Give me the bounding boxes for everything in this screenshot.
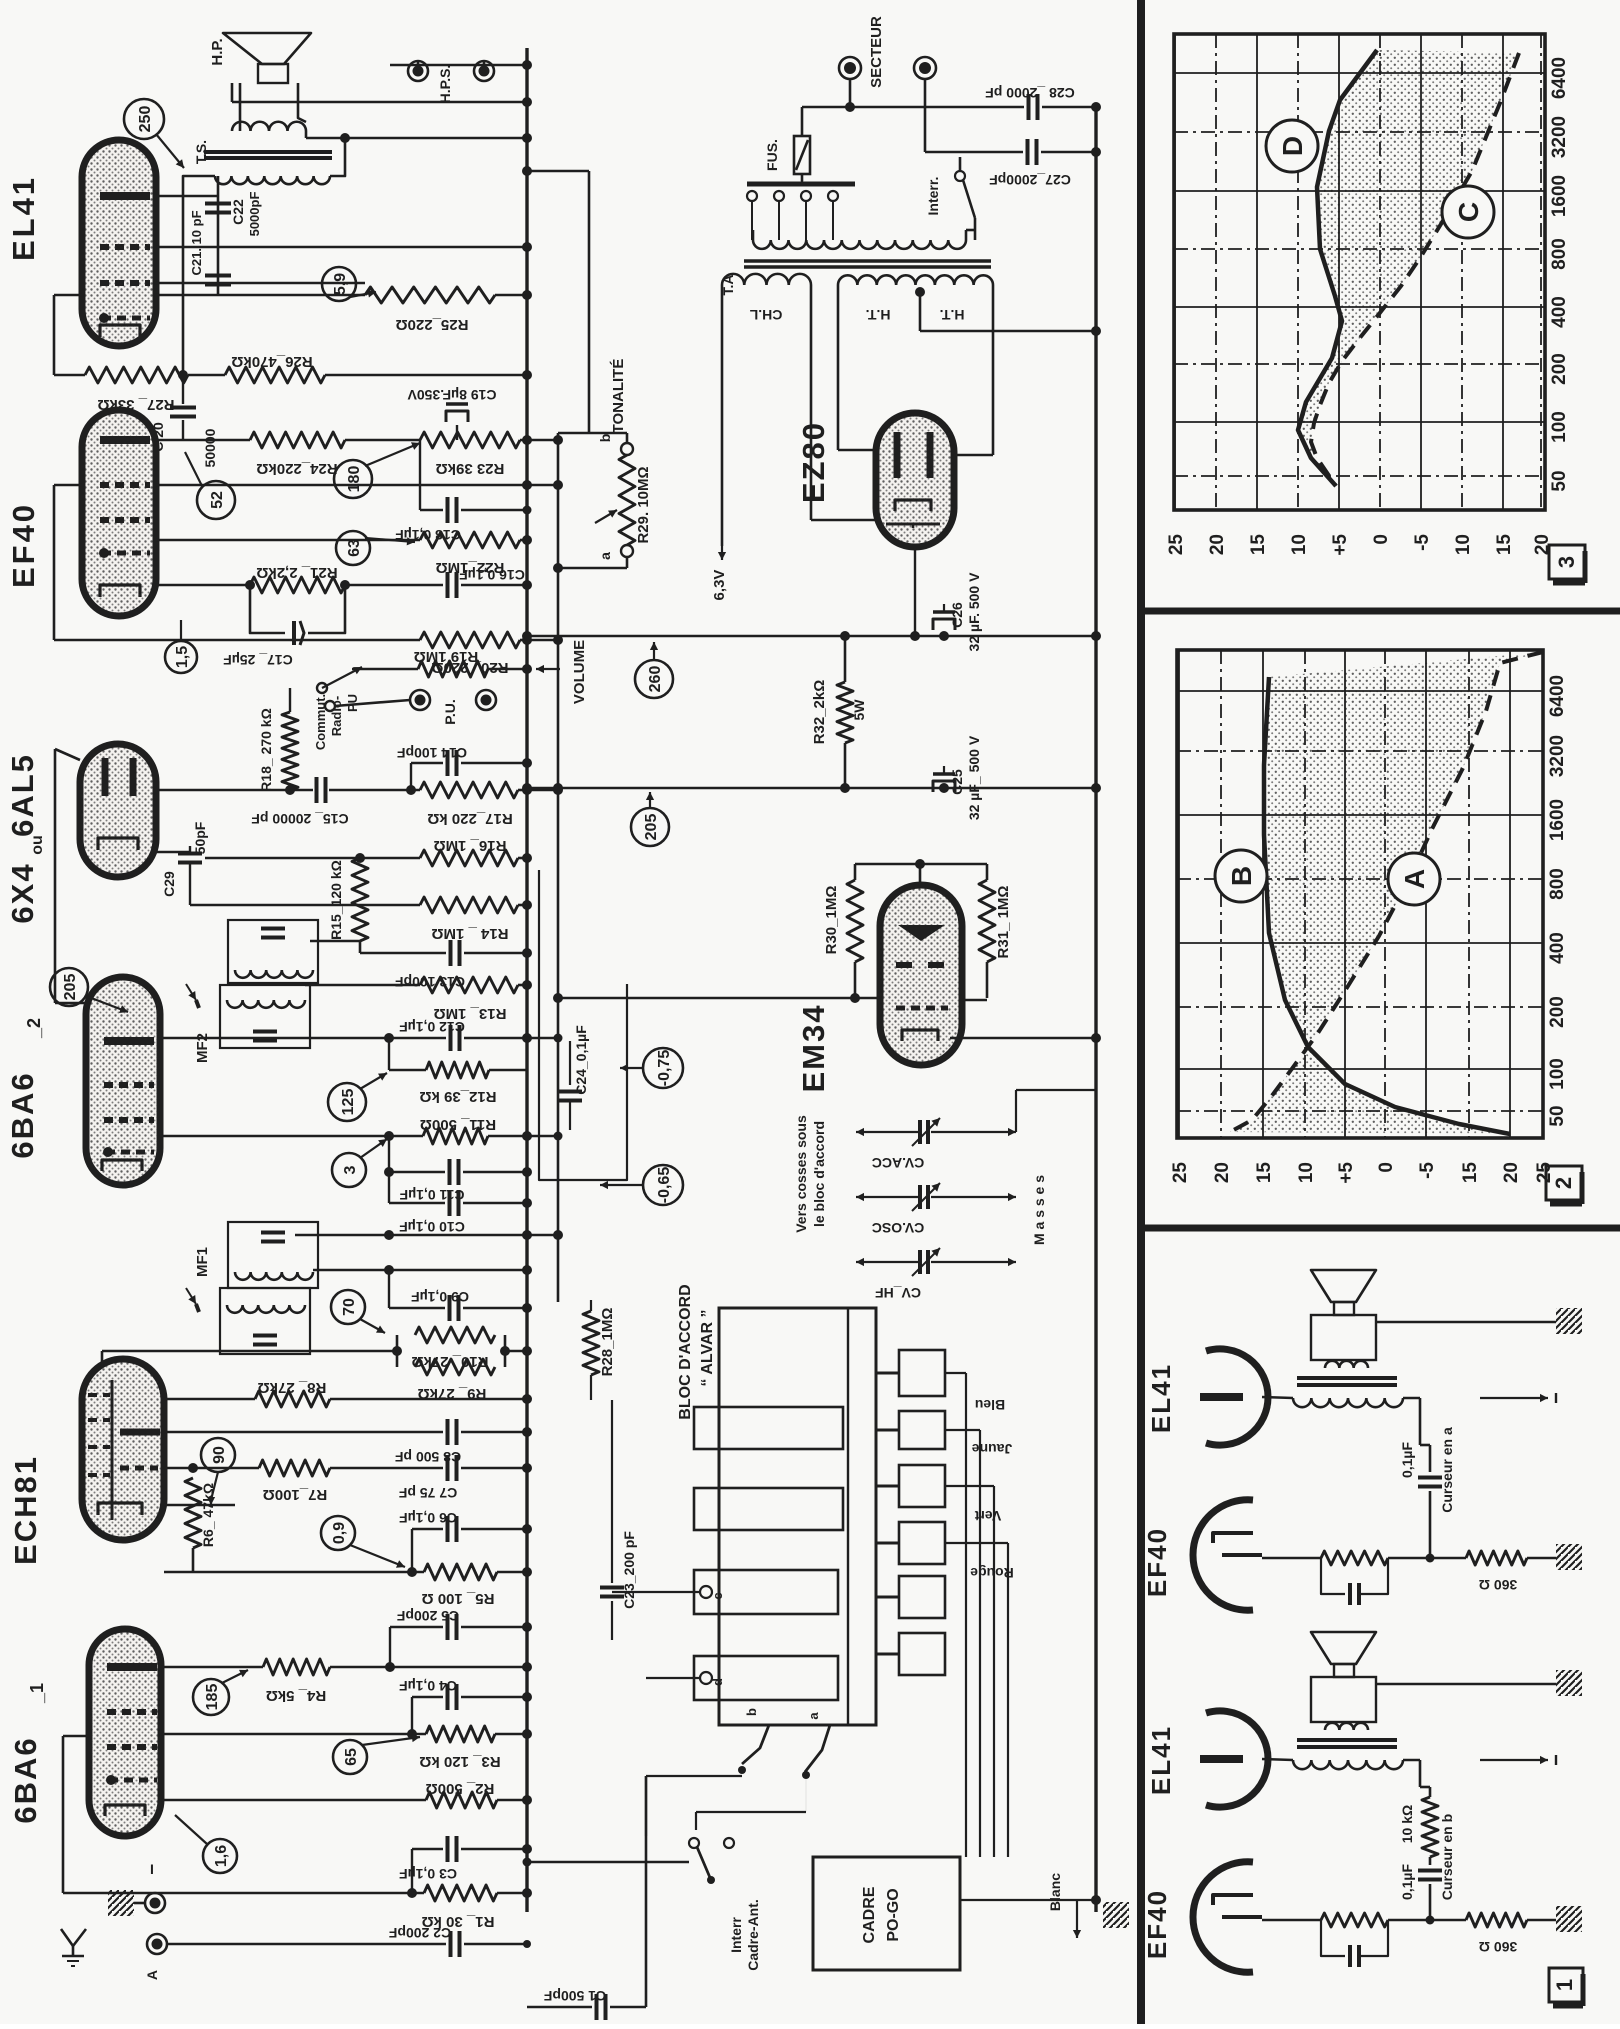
curve A dashed xyxy=(1230,652,1543,1132)
label C29 value xyxy=(192,821,208,854)
wire R17 to bus xyxy=(518,789,527,792)
wire HPS rail xyxy=(390,64,527,67)
svg-text:C21. 10 pF: C21. 10 pF xyxy=(189,210,204,275)
tube ECH81 xyxy=(82,1359,164,1540)
svg-text:1600: 1600 xyxy=(1549,175,1570,217)
transformer TA secondary CHL xyxy=(722,274,811,285)
EL41 anode bar xyxy=(100,192,150,200)
tuning block bar2 xyxy=(694,1488,843,1530)
label H.T. left xyxy=(866,307,891,323)
wire R2 to bus xyxy=(497,1799,527,1802)
resistor R19 xyxy=(418,661,488,677)
wire cadre lead 2 xyxy=(945,1430,980,1857)
wire middle b xyxy=(1388,1919,1466,1922)
svg-text:TONALITÉ: TONALITÉ xyxy=(610,359,627,434)
label Rouge xyxy=(970,1565,1014,1581)
label EZ80 xyxy=(796,421,831,503)
label T.S. xyxy=(193,140,209,164)
svg-text:10 kΩ: 10 kΩ xyxy=(1399,1805,1415,1843)
tuning block bar3 xyxy=(694,1570,838,1614)
EM34 bars xyxy=(896,962,944,968)
svg-text:R17_220 kΩ: R17_220 kΩ xyxy=(427,810,512,827)
wire EL41 anode row xyxy=(156,195,218,198)
junction xyxy=(553,563,563,573)
wire curseur branch a xyxy=(1420,1398,1430,1472)
wire speaker ground b xyxy=(1376,1683,1556,1686)
junction xyxy=(845,102,855,112)
junction xyxy=(385,1622,532,1672)
resistor R17 xyxy=(420,782,518,798)
svg-text:C4 0,1µF: C4 0,1µF xyxy=(399,1678,457,1694)
callout 180 xyxy=(334,442,420,498)
svg-text:63: 63 xyxy=(346,539,363,557)
capacitor C4 xyxy=(412,1684,527,1734)
wire switch a row xyxy=(696,1771,810,1830)
tuning block bar1 xyxy=(694,1407,843,1449)
label 10k b xyxy=(1399,1805,1415,1843)
label C18 value xyxy=(395,527,461,543)
wire R5 to bus xyxy=(497,1571,527,1574)
capacitor C18 xyxy=(420,440,532,523)
svg-text:Bleu: Bleu xyxy=(975,1397,1005,1413)
wire right-hand vertical bus xyxy=(1094,107,1097,1912)
label C22 xyxy=(230,199,246,225)
junction xyxy=(522,1795,532,1805)
svg-text:R19 1MΩ: R19 1MΩ xyxy=(414,648,479,665)
svg-text:360 Ω: 360 Ω xyxy=(1479,1939,1517,1955)
resistor R5 xyxy=(424,1564,497,1580)
svg-text:M a s s e s: M a s s e s xyxy=(1031,1175,1047,1245)
page tab 1 xyxy=(1549,1968,1583,2006)
wire CHL left lead xyxy=(721,285,724,546)
6BA6_1 grid bars xyxy=(107,1712,157,1747)
label R8 value xyxy=(258,1379,327,1396)
resistor R4 xyxy=(263,1659,330,1675)
label EM34 xyxy=(796,1004,831,1093)
svg-text:20: 20 xyxy=(1501,1162,1522,1183)
label C3 value xyxy=(399,1866,457,1882)
wire R24-R23 xyxy=(345,439,420,442)
wire EL41 grid row xyxy=(156,246,527,249)
wire R19 to bus xyxy=(488,668,527,671)
wire R27-R26 xyxy=(188,374,225,377)
svg-text:FUS.: FUS. xyxy=(764,139,780,171)
capacitor C16 xyxy=(448,572,457,598)
wire ECH81 g row xyxy=(164,1467,259,1470)
label CADRE xyxy=(861,1886,878,1943)
label curve A xyxy=(1388,853,1440,905)
junction xyxy=(939,783,949,793)
svg-text:C24_0,1µF: C24_0,1µF xyxy=(573,1025,589,1095)
capacitor C24 xyxy=(558,1092,582,1131)
wire 6BA6_2 cathode row xyxy=(160,1135,423,1138)
label R20 value xyxy=(431,659,508,676)
svg-text:b: b xyxy=(597,434,613,443)
terminal secteur right xyxy=(914,57,936,79)
wire C28 row xyxy=(850,106,1024,109)
callout 90 xyxy=(201,1438,235,1505)
wire row858 xyxy=(205,857,420,860)
resistor R6 vertical xyxy=(185,1478,201,1548)
resistor 10k b xyxy=(1422,1797,1438,1857)
label R14 value xyxy=(431,925,508,942)
ground chassis xyxy=(108,1890,134,1916)
arrow 6,3V xyxy=(718,546,726,560)
MF2 lower coil xyxy=(227,1000,305,1008)
svg-text:6BA6: 6BA6 xyxy=(8,1736,43,1823)
wire TS rail y138 xyxy=(306,131,527,138)
output transformer a secondary xyxy=(1325,1361,1368,1368)
capacitor C2 xyxy=(451,1931,460,1957)
svg-text:Interr: Interr xyxy=(728,1917,744,1953)
junction xyxy=(522,948,532,958)
6BA6_2 grid bars xyxy=(104,1085,154,1120)
label R32 value xyxy=(811,680,828,745)
label C20 value 50000 xyxy=(202,428,218,467)
svg-text:800: 800 xyxy=(1547,868,1568,900)
svg-text:65: 65 xyxy=(343,1748,360,1766)
tube EL41 output b xyxy=(1200,1711,1268,1807)
resistor R32 vertical xyxy=(837,636,853,788)
6BA6_2 cathode bracket xyxy=(102,1160,142,1171)
svg-text:C9 0,1µF: C9 0,1µF xyxy=(411,1289,469,1305)
speaker a xyxy=(1311,1270,1376,1360)
junction xyxy=(188,1463,532,1473)
junction xyxy=(522,900,532,910)
wire R14 to bus xyxy=(518,904,527,907)
label R27 value xyxy=(97,396,174,413)
tube EF40 xyxy=(82,410,156,616)
resistor R27 xyxy=(85,367,188,383)
wire R11 to bus xyxy=(488,1132,563,1141)
label MF2 xyxy=(194,1033,211,1063)
svg-text:A: A xyxy=(1399,869,1430,889)
svg-text:b: b xyxy=(744,1708,759,1716)
junction xyxy=(522,242,532,252)
svg-text:25: 25 xyxy=(1170,1162,1191,1184)
wire R26 to bus xyxy=(325,374,527,377)
wire speaker ground a xyxy=(1376,1321,1556,1324)
svg-text:+5: +5 xyxy=(1336,1162,1357,1184)
label C1 value xyxy=(543,1988,606,2004)
svg-text:260: 260 xyxy=(647,666,664,693)
wire HT right lead xyxy=(954,285,993,455)
capacitor C19 electrolytic xyxy=(446,404,468,440)
junction xyxy=(245,580,532,590)
label R19 value xyxy=(414,648,479,665)
label ALVAR xyxy=(699,1309,716,1386)
EM34 grid xyxy=(896,1006,948,1011)
tuning block contact 5 xyxy=(876,1576,945,1618)
capacitor C11 xyxy=(389,1136,527,1185)
label C26 value xyxy=(966,572,982,652)
label H.T. right xyxy=(940,307,965,323)
svg-text:C5 200pF: C5 200pF xyxy=(396,1608,459,1624)
svg-text:2: 2 xyxy=(1551,1177,1576,1189)
label R16 value xyxy=(434,837,507,854)
svg-text:R25_220Ω: R25_220Ω xyxy=(396,316,469,333)
output transformer a core xyxy=(1297,1378,1397,1385)
label R32 5W xyxy=(851,699,867,721)
EL41 grid3 bar xyxy=(99,313,150,323)
junction xyxy=(355,853,532,863)
svg-text:0,1µF: 0,1µF xyxy=(1399,1864,1415,1901)
tube EL41 xyxy=(82,140,156,346)
svg-text:-5: -5 xyxy=(1417,1162,1438,1179)
svg-text:C8 500 pF: C8 500 pF xyxy=(394,1449,461,1465)
svg-text:400: 400 xyxy=(1549,296,1570,328)
wire antenna row xyxy=(167,1943,446,1946)
ground speaker b xyxy=(1556,1670,1582,1696)
svg-text:3: 3 xyxy=(1554,556,1579,568)
capacitor C10 xyxy=(389,1172,527,1216)
wire EM34 left row xyxy=(558,997,880,1000)
junction xyxy=(392,1346,532,1356)
wire bar3 link xyxy=(612,1591,700,1593)
svg-text:P.U.: P.U. xyxy=(442,699,458,724)
label 6X4 ou 6AL5 xyxy=(5,753,46,923)
label H.P.S. xyxy=(437,65,453,104)
svg-text:C1 500pF: C1 500pF xyxy=(543,1988,606,2004)
wire R9R10 right xyxy=(505,1350,527,1353)
wire 6BA6_1 left loop xyxy=(63,1736,89,1893)
wire CV masses xyxy=(1016,1090,1096,1132)
junction xyxy=(522,664,532,674)
wire middle a xyxy=(1388,1557,1466,1560)
resistor R31 vertical xyxy=(979,864,995,998)
svg-text:H.P.: H.P. xyxy=(209,38,226,65)
wire R1 to bus xyxy=(497,1892,527,1895)
wire HPS stubs xyxy=(418,61,484,65)
svg-text:C27_2000pF: C27_2000pF xyxy=(989,172,1071,188)
svg-text:32 µF_ 500 V: 32 µF_ 500 V xyxy=(966,735,982,820)
svg-text:100: 100 xyxy=(1547,1058,1568,1090)
capacitor C9 xyxy=(389,1295,527,1321)
junction xyxy=(407,1844,532,1898)
label R9 value xyxy=(418,1385,487,1402)
svg-text:C25: C25 xyxy=(949,769,965,795)
curve D solid xyxy=(1298,50,1377,486)
junction xyxy=(522,1524,532,1534)
junction xyxy=(522,631,1101,641)
junction xyxy=(522,97,532,107)
junction xyxy=(523,1940,531,1948)
label R3 value xyxy=(419,1753,500,1770)
EF40 grid3 bar xyxy=(99,548,150,558)
wire EF40 g2 row y540 xyxy=(156,539,420,542)
wire speaker rail y102 xyxy=(232,83,527,102)
label C16 value xyxy=(459,567,525,583)
label C24 value xyxy=(573,1025,589,1095)
capacitor C1 xyxy=(597,1994,606,2020)
label 6BA6_1 xyxy=(8,1683,47,1824)
junction xyxy=(522,1729,532,1739)
terminal PU right xyxy=(476,690,496,710)
svg-text:H.T.: H.T. xyxy=(940,307,965,323)
wire row792 xyxy=(156,785,563,795)
label 360 b xyxy=(1479,1939,1517,1955)
label R7 value xyxy=(263,1486,328,1503)
svg-text:200: 200 xyxy=(1549,353,1570,385)
svg-text:205: 205 xyxy=(643,814,660,841)
wire HT left lead xyxy=(838,285,876,450)
panel divider vertical xyxy=(1137,0,1145,2024)
wire cathode return y640 xyxy=(54,639,420,642)
svg-text:C3 0,1µF: C3 0,1µF xyxy=(399,1866,457,1882)
label EL41 a xyxy=(1146,1363,1176,1433)
label EL41 b xyxy=(1146,1725,1176,1795)
callout 63 xyxy=(336,531,415,565)
ground cathode b xyxy=(1556,1906,1582,1932)
ECH81 grid bars xyxy=(88,1395,158,1468)
wire R19 row left xyxy=(352,668,418,671)
wire secondary vertical bus xyxy=(557,433,560,1302)
label CV.ACC xyxy=(872,1155,924,1171)
tube 6BA6_1 xyxy=(89,1629,161,1836)
capacitor 0,1uF b xyxy=(1418,1857,1442,1880)
wire cap to cathode row b xyxy=(1429,1884,1432,1920)
wire TA primary risers xyxy=(753,230,975,240)
label C7 value xyxy=(398,1485,457,1501)
wire 6X4 left loop xyxy=(55,749,85,1003)
svg-text:C11 0,1µF: C11 0,1µF xyxy=(399,1187,464,1203)
wire row640 ext xyxy=(527,635,563,645)
wire EF40 anode row xyxy=(156,439,250,442)
label VOLUME xyxy=(571,640,588,704)
label R21 value xyxy=(256,564,337,581)
resistor R25 xyxy=(365,287,495,303)
EF40 cathode bracket xyxy=(100,585,140,597)
svg-text:5W: 5W xyxy=(851,699,867,721)
label R10 value xyxy=(411,1353,488,1370)
transformer TS primary xyxy=(215,176,330,184)
svg-text:6,3V: 6,3V xyxy=(711,570,728,601)
resistor R7 xyxy=(259,1460,330,1476)
speaker HP cone xyxy=(223,33,311,64)
svg-text:Jaune: Jaune xyxy=(972,1441,1013,1457)
variable capacitor CV.ACC xyxy=(856,1118,1016,1146)
label R15 value xyxy=(328,860,344,940)
svg-text:ECH81: ECH81 xyxy=(8,1455,43,1565)
fuse FUS xyxy=(794,107,810,181)
svg-text:R24_220kΩ: R24_220kΩ xyxy=(256,460,337,477)
label C12 value xyxy=(399,1019,465,1035)
wire C9 branch xyxy=(384,1265,394,1308)
wire R4 to bus xyxy=(330,1666,527,1669)
MF1 upper coil xyxy=(235,1272,313,1280)
svg-text:EL41: EL41 xyxy=(6,175,41,261)
capacitor C12 xyxy=(389,1025,563,1070)
capacitor C28 xyxy=(1029,94,1038,120)
svg-text:50: 50 xyxy=(1547,1105,1568,1126)
svg-text:A: A xyxy=(144,1970,160,1980)
svg-text:3200: 3200 xyxy=(1549,116,1570,158)
svg-text:H.P.S.: H.P.S. xyxy=(437,65,453,104)
svg-text:360 Ω: 360 Ω xyxy=(1479,1577,1517,1593)
svg-text:le bloc d'accord: le bloc d'accord xyxy=(811,1121,827,1227)
tuning block contact 4 xyxy=(876,1522,945,1564)
terminal secteur left xyxy=(839,57,861,79)
wire main vertical bus xyxy=(525,48,528,1912)
svg-text:R29. 10MΩ: R29. 10MΩ xyxy=(635,466,652,543)
label Bleu xyxy=(975,1397,1005,1413)
resistor R28 vertical xyxy=(583,1300,599,1400)
callout 250 xyxy=(124,99,184,168)
wire row1235 xyxy=(295,1234,558,1237)
capacitor C6 xyxy=(412,1516,527,1572)
junction xyxy=(522,435,563,445)
svg-text:0: 0 xyxy=(1376,1162,1397,1173)
label Vert xyxy=(974,1508,1001,1524)
terminal b xyxy=(597,433,633,455)
EZ80 filament bracket xyxy=(895,500,931,511)
transformer TA secondary HT xyxy=(838,275,993,285)
TA tap terminals xyxy=(747,181,838,240)
tube EZ80 xyxy=(876,413,954,547)
callout 260 xyxy=(635,642,673,698)
transformer TA core xyxy=(744,261,991,267)
svg-text:-0,65: -0,65 xyxy=(656,1167,673,1204)
antenna xyxy=(61,1929,86,1966)
label Jaune xyxy=(972,1441,1013,1457)
label R29 value xyxy=(635,466,652,543)
label R30 value xyxy=(823,886,840,955)
svg-text:BLOC D'ACCORD: BLOC D'ACCORD xyxy=(677,1284,694,1419)
svg-text:20: 20 xyxy=(1207,534,1228,555)
svg-text:400: 400 xyxy=(1547,932,1568,964)
wire R27 left end xyxy=(54,374,85,377)
tuning block contact 1 xyxy=(876,1350,945,1396)
wire TS primary right lead xyxy=(330,138,345,176)
6BA6_1 grid3 bar xyxy=(106,1775,157,1785)
svg-text:R12_39 kΩ: R12_39 kΩ xyxy=(419,1088,496,1105)
capacitor C5 xyxy=(390,1614,527,1667)
label EF40 b xyxy=(1142,1889,1172,1959)
svg-text:15: 15 xyxy=(1254,1162,1275,1184)
MF1 upper box xyxy=(228,1222,318,1288)
svg-text:Blanc: Blanc xyxy=(1047,1873,1063,1911)
wire MF2 to R13 row xyxy=(305,984,420,987)
junction xyxy=(340,133,532,143)
wire to ground a xyxy=(1527,1557,1556,1560)
svg-text:200: 200 xyxy=(1547,996,1568,1028)
svg-text:6X4: 6X4 xyxy=(5,862,40,923)
svg-text:C28 _2000 pF: C28 _2000 pF xyxy=(985,85,1075,101)
wire terminal I xyxy=(134,1902,145,1905)
wire R25 to bus xyxy=(495,294,527,297)
6BA6_1 anode bar xyxy=(107,1663,157,1671)
terminal I xyxy=(145,1861,165,1913)
junction xyxy=(522,1265,532,1275)
wire C7 to bus xyxy=(461,1467,527,1470)
wire a return xyxy=(558,557,627,568)
svg-text:125: 125 xyxy=(340,1089,357,1116)
wire secteur left xyxy=(802,79,850,107)
svg-text:Vers cosses sous: Vers cosses sous xyxy=(793,1115,809,1233)
label C13 value xyxy=(395,974,465,990)
svg-text:C29: C29 xyxy=(161,871,177,897)
ground speaker a xyxy=(1556,1308,1582,1334)
label C21 xyxy=(189,210,204,275)
junction xyxy=(522,1888,532,1898)
label C8 value xyxy=(394,1449,461,1465)
resistor R23 xyxy=(420,432,520,448)
label C22 value xyxy=(247,192,262,237)
svg-text:PO-GO: PO-GO xyxy=(885,1888,902,1941)
cathode resistor a xyxy=(1321,1551,1388,1565)
label Vers cosses xyxy=(793,1115,809,1233)
page tab 3 xyxy=(1549,545,1585,583)
